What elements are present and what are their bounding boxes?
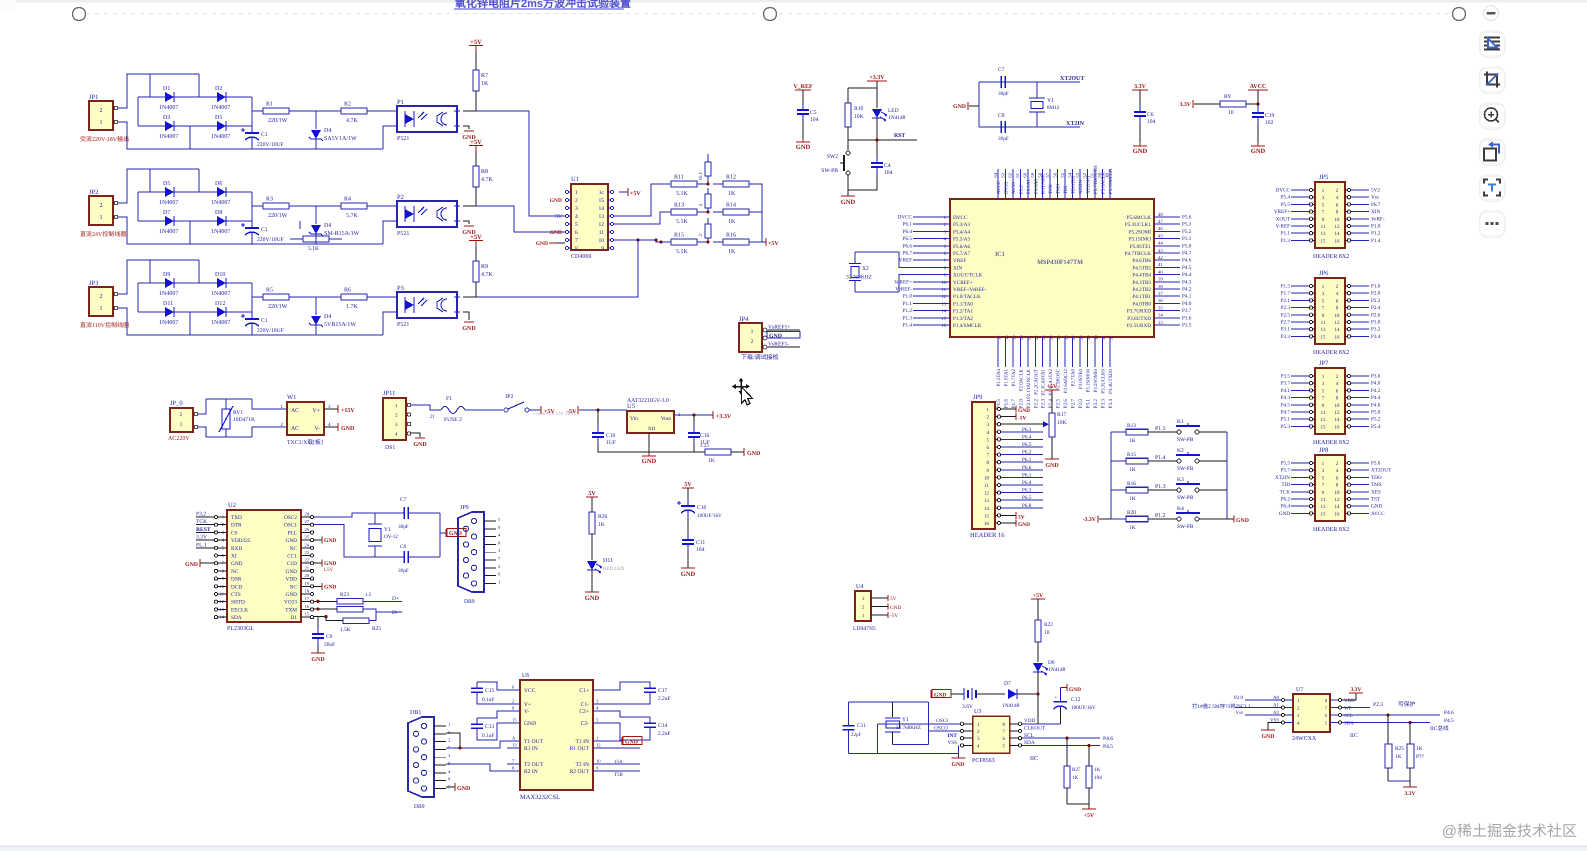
svg-text:P6.6: P6.6 bbox=[1022, 465, 1032, 471]
ground crystal bbox=[439, 513, 441, 557]
resistor R1 bbox=[253, 108, 299, 114]
svg-text:OV-12: OV-12 bbox=[384, 534, 398, 540]
svg-text:16: 16 bbox=[1335, 424, 1341, 430]
svg-text:VSS: VSS bbox=[947, 740, 957, 746]
LED D10 bbox=[876, 88, 878, 108]
svg-text:IC1: IC1 bbox=[995, 251, 1005, 258]
svg-text:24WCXX: 24WCXX bbox=[1292, 736, 1317, 742]
wire DB1 to MAX bbox=[446, 741, 507, 748]
svg-text:P5.4: P5.4 bbox=[1281, 195, 1291, 201]
svg-text:P5.6: P5.6 bbox=[1371, 461, 1381, 467]
svg-text:P6.1: P6.1 bbox=[1022, 457, 1032, 463]
wire A pins bbox=[1245, 699, 1281, 701]
svg-text:D7: D7 bbox=[163, 210, 170, 216]
svg-text:K1: K1 bbox=[1177, 419, 1184, 425]
svg-text:P3.4UTXD0: P3.4UTXD0 bbox=[1108, 368, 1114, 393]
svg-text:36: 36 bbox=[1158, 298, 1163, 304]
svg-text:15: 15 bbox=[1321, 511, 1327, 517]
svg-text:@稀土掘金技术社区: @稀土掘金技术社区 bbox=[1442, 823, 1577, 840]
svg-text:PL.1: PL.1 bbox=[196, 542, 207, 548]
svg-text:CTS: CTS bbox=[231, 592, 241, 598]
svg-text:V-REF: V-REF bbox=[1275, 224, 1290, 230]
wire JP8 pin12 bbox=[1351, 498, 1369, 500]
svg-text:LED: LED bbox=[888, 108, 899, 114]
toolbar annotate button bbox=[1480, 31, 1506, 58]
svg-text:3.3V: 3.3V bbox=[196, 535, 207, 541]
svg-text:GND: GND bbox=[1262, 734, 1275, 740]
svg-text:4.7K: 4.7K bbox=[481, 272, 494, 278]
svg-text:C8: C8 bbox=[400, 544, 406, 550]
svg-text:P2.1: P2.1 bbox=[1026, 399, 1032, 409]
svg-text:P1.6: P1.6 bbox=[1371, 284, 1381, 290]
svg-text:1.5: 1.5 bbox=[365, 592, 372, 598]
resistor R28 pull-up bbox=[1087, 744, 1090, 747]
svg-text:FUSE 2: FUSE 2 bbox=[444, 417, 462, 423]
wire JP7 pin14 bbox=[1351, 418, 1369, 420]
svg-text:5: 5 bbox=[575, 222, 578, 228]
svg-text:14: 14 bbox=[1335, 417, 1341, 423]
svg-text:GND: GND bbox=[625, 740, 638, 746]
wire JP8 pin11 bbox=[1291, 498, 1309, 500]
fuse F1 bbox=[441, 407, 465, 414]
capacitor C9 20uF bbox=[317, 617, 319, 634]
svg-text:VREF: VREF bbox=[953, 258, 966, 264]
svg-text:2: 2 bbox=[751, 339, 754, 345]
svg-text:SW-PB: SW-PB bbox=[1177, 466, 1194, 472]
svg-text:17: 17 bbox=[997, 335, 1002, 340]
svg-text:XT2IN: XT2IN bbox=[1275, 475, 1290, 481]
MCU right pin 43 bbox=[1154, 252, 1166, 254]
svg-text:RST: RST bbox=[894, 133, 905, 139]
svg-text:5.1K: 5.1K bbox=[676, 249, 689, 255]
svg-text:R27: R27 bbox=[1072, 767, 1081, 773]
wire JP8 pin10 bbox=[1351, 491, 1369, 493]
wire JP5 pin9 bbox=[1291, 218, 1309, 220]
resistor R9 bbox=[475, 246, 477, 261]
svg-text:WP: WP bbox=[1344, 706, 1352, 712]
wire key right bus bbox=[1226, 432, 1228, 519]
wire JP6 pin7 bbox=[1291, 307, 1309, 309]
svg-text:V_REF: V_REF bbox=[793, 84, 813, 90]
wire net P1.4 bbox=[1148, 460, 1177, 462]
svg-text:D5: D5 bbox=[163, 181, 170, 187]
wire RST node bbox=[848, 139, 917, 141]
svg-text:R13: R13 bbox=[1127, 423, 1136, 429]
wire JP5 pin10 bbox=[1351, 218, 1369, 220]
svg-text:P5.3: P5.3 bbox=[1182, 222, 1192, 228]
svg-text:19: 19 bbox=[305, 581, 310, 586]
switch JP2 SPST bbox=[504, 408, 508, 412]
capacitor C17 bbox=[606, 682, 650, 690]
svg-text:GND: GND bbox=[324, 584, 336, 590]
svg-text:24: 24 bbox=[305, 542, 310, 547]
svg-text:37: 37 bbox=[1158, 291, 1163, 297]
svg-text:100UF/16V: 100UF/16V bbox=[1071, 705, 1096, 711]
svg-text:11: 11 bbox=[984, 483, 989, 489]
svg-text:5V: 5V bbox=[555, 214, 562, 220]
svg-text:11: 11 bbox=[1321, 224, 1326, 230]
svg-text:1N4007: 1N4007 bbox=[159, 291, 178, 297]
crystal X1 loop bbox=[849, 701, 929, 703]
wire JP6 pin1 bbox=[1291, 285, 1309, 287]
svg-text:XOUT/TCLK: XOUT/TCLK bbox=[953, 273, 983, 279]
MCU left pin 16 bbox=[938, 324, 950, 326]
svg-text:1K: 1K bbox=[481, 81, 489, 87]
svg-text:P5.3: P5.3 bbox=[1281, 424, 1291, 430]
svg-text:JP7: JP7 bbox=[1319, 360, 1329, 367]
svg-text:P1.0/TACLK: P1.0/TACLK bbox=[953, 294, 981, 300]
MCU top pin 59 bbox=[1034, 169, 1036, 199]
svg-text:P4.5: P4.5 bbox=[1182, 265, 1192, 271]
svg-text:GND: GND bbox=[462, 326, 476, 332]
svg-text:P6.5: P6.5 bbox=[903, 236, 913, 242]
svg-text:INT: INT bbox=[947, 733, 957, 739]
svg-text:P5.6: P5.6 bbox=[1182, 215, 1192, 221]
MCU top pin 53 bbox=[1079, 169, 1081, 199]
svg-text:12: 12 bbox=[1335, 320, 1341, 326]
selection dashed line bbox=[86, 13, 1453, 15]
svg-text:14: 14 bbox=[1335, 504, 1341, 510]
MCU left pin 14 bbox=[938, 310, 950, 312]
svg-text:U5: U5 bbox=[627, 403, 635, 410]
diode D8 bbox=[217, 216, 226, 226]
svg-text:V-: V- bbox=[524, 709, 530, 715]
wire JP8 pin5 bbox=[1291, 476, 1309, 478]
svg-text:DCD: DCD bbox=[231, 584, 242, 590]
wire JP1 loop bbox=[118, 74, 199, 108]
svg-text:P4.2TB2: P4.2TB2 bbox=[1132, 287, 1151, 293]
resistor R22 bbox=[1035, 620, 1041, 642]
wire U5 gnd bbox=[648, 433, 650, 452]
svg-text:XIN: XIN bbox=[1371, 209, 1380, 215]
wire JP5 pin2 bbox=[1351, 189, 1369, 191]
svg-text:P1.3: P1.3 bbox=[903, 315, 913, 321]
MCU bottom pin 29 bbox=[1086, 337, 1088, 367]
svg-text:P2.3: P2.3 bbox=[1281, 305, 1291, 311]
wire row2 to U1 bbox=[476, 206, 565, 232]
wire JP9 pin1 gnd bbox=[1001, 408, 1016, 410]
svg-text:P6.5: P6.5 bbox=[1022, 495, 1032, 501]
svg-text:T2 IN: T2 IN bbox=[575, 762, 589, 768]
wire JP6 pin5 bbox=[1291, 299, 1309, 301]
MCU bottom pin 27 bbox=[1072, 337, 1074, 367]
svg-text:22: 22 bbox=[305, 558, 310, 563]
wire SDA long bbox=[1342, 722, 1430, 724]
svg-text:D5: D5 bbox=[215, 115, 222, 121]
svg-text:48: 48 bbox=[1158, 212, 1163, 218]
svg-text:14: 14 bbox=[219, 615, 224, 620]
capacitor C10b electrolytic bbox=[677, 499, 695, 518]
switch K3 bbox=[1177, 488, 1181, 492]
svg-text:58: 58 bbox=[1038, 172, 1043, 177]
ground U5 bbox=[648, 452, 650, 456]
svg-text:12: 12 bbox=[1335, 224, 1341, 230]
svg-text:U2: U2 bbox=[228, 502, 236, 509]
svg-text:P3.3: P3.3 bbox=[1281, 334, 1291, 340]
svg-text:14: 14 bbox=[984, 506, 990, 512]
svg-text:P5.5: P5.5 bbox=[1281, 202, 1291, 208]
svg-text:P1.3: P1.3 bbox=[1281, 238, 1291, 244]
svg-text:12: 12 bbox=[599, 222, 605, 228]
svg-text:P5.5SMCLK: P5.5SMCLK bbox=[1108, 168, 1114, 194]
svg-text:12: 12 bbox=[1335, 497, 1341, 503]
svg-text:60: 60 bbox=[1023, 172, 1028, 177]
MCU right pin 46 bbox=[1154, 230, 1166, 232]
wire JP9 pin5 bbox=[1001, 438, 1043, 440]
wire opto emitter to gnd bbox=[463, 312, 469, 320]
connector JP11 bbox=[383, 398, 406, 440]
svg-text:1: 1 bbox=[100, 120, 103, 126]
svg-text:HEADER 8X2: HEADER 8X2 bbox=[1313, 350, 1349, 356]
svg-text:1N4007: 1N4007 bbox=[159, 320, 178, 326]
svg-text:TXC1/X载[板]: TXC1/X载[板] bbox=[287, 439, 323, 446]
capacitor C row JP1 bbox=[241, 126, 259, 145]
MCU left pin 15 bbox=[938, 317, 950, 319]
svg-text:GND: GND bbox=[286, 538, 298, 544]
svg-text:5V: 5V bbox=[1018, 515, 1025, 521]
svg-text:12: 12 bbox=[219, 599, 224, 604]
wire JP7 pin10 bbox=[1351, 404, 1369, 406]
svg-text:P3.6UTXD: P3.6UTXD bbox=[1127, 316, 1151, 322]
svg-text:P1.4: P1.4 bbox=[1371, 238, 1381, 244]
svg-text:41: 41 bbox=[1158, 262, 1163, 268]
svg-text:DB1: DB1 bbox=[410, 710, 421, 716]
svg-text:OSC1: OSC1 bbox=[284, 523, 297, 529]
wire to zener bbox=[289, 110, 341, 112]
svg-text:+15V: +15V bbox=[341, 408, 355, 414]
wire JP6 pin11 bbox=[1291, 321, 1309, 323]
svg-text:P5.2SOMI: P5.2SOMI bbox=[1129, 229, 1152, 235]
svg-text:OSCO: OSCO bbox=[934, 726, 948, 732]
svg-text:26: 26 bbox=[1064, 335, 1069, 340]
svg-text:GND: GND bbox=[413, 442, 427, 448]
svg-text:VsREF1+: VsREF1+ bbox=[768, 325, 790, 331]
MCU bottom pin 17 bbox=[997, 337, 999, 367]
resistor R14 bbox=[713, 209, 759, 215]
ground DB1 bbox=[446, 786, 455, 788]
svg-text:C19: C19 bbox=[1265, 113, 1275, 119]
svg-text:VDD325: VDD325 bbox=[231, 538, 251, 544]
svg-text:P3.7URXD: P3.7URXD bbox=[1127, 309, 1151, 315]
svg-text:1c: 1c bbox=[599, 190, 605, 196]
svg-text:P6.1: P6.1 bbox=[1022, 472, 1032, 478]
svg-text:5V: 5V bbox=[588, 491, 596, 497]
capacitor C8 bbox=[979, 126, 1080, 128]
wire R12-R14-R16 right bus bbox=[759, 184, 762, 242]
svg-text:P5.1SIMO: P5.1SIMO bbox=[1129, 237, 1152, 243]
svg-text:1K: 1K bbox=[1395, 754, 1402, 760]
svg-text:P4.3TB3: P4.3TB3 bbox=[1132, 280, 1151, 286]
ground opto row bbox=[464, 225, 474, 227]
svg-text:D9: D9 bbox=[163, 272, 170, 278]
svg-text:2.2uF: 2.2uF bbox=[658, 731, 670, 737]
svg-text:20: 20 bbox=[1019, 335, 1024, 340]
svg-text:C1: C1 bbox=[261, 132, 268, 138]
wire JP5 pin15 bbox=[1291, 239, 1309, 241]
wire key K2 out bbox=[1199, 460, 1227, 462]
MCU top pin 56 bbox=[1057, 169, 1059, 199]
svg-text:13: 13 bbox=[1321, 504, 1327, 510]
svg-text:1N4007: 1N4007 bbox=[211, 320, 230, 326]
wire JP7 pin16 bbox=[1351, 425, 1369, 427]
wire JP11 pin1 to fuse bbox=[411, 405, 441, 410]
IC IC1 MSP430F147 bbox=[950, 199, 1154, 337]
svg-text:ND: ND bbox=[648, 426, 656, 432]
svg-text:8: 8 bbox=[575, 246, 578, 252]
svg-text:15: 15 bbox=[512, 718, 517, 723]
svg-text:220V/10UF: 220V/10UF bbox=[257, 328, 284, 334]
MCU right pin 41 bbox=[1154, 266, 1166, 268]
svg-text:59: 59 bbox=[1030, 172, 1035, 177]
wire JP6 pin6 bbox=[1351, 299, 1369, 301]
svg-text:P4.2: P4.2 bbox=[1371, 388, 1381, 394]
svg-text:XT2IN: XT2IN bbox=[1066, 121, 1085, 127]
svg-text:PCF8563: PCF8563 bbox=[972, 758, 995, 764]
svg-text:P1.6TA1: P1.6TA1 bbox=[1003, 368, 1009, 386]
svg-text:P2.7: P2.7 bbox=[1071, 399, 1077, 409]
MCU left pin 5 bbox=[938, 245, 950, 247]
svg-text:P3.3: P3.3 bbox=[1100, 399, 1106, 409]
svg-text:3.3V: 3.3V bbox=[1180, 102, 1192, 108]
zener diode D4 bbox=[309, 316, 323, 327]
diode D10 bbox=[217, 278, 226, 288]
svg-text:P5.7: P5.7 bbox=[1281, 468, 1291, 474]
IC U1 CD4069 bbox=[571, 184, 608, 250]
svg-text:C17: C17 bbox=[658, 688, 668, 694]
svg-text:64: 64 bbox=[993, 172, 998, 177]
diode D7 bbox=[1008, 689, 1017, 699]
toolbar rotate button bbox=[1480, 139, 1506, 166]
svg-text:P2.0: P2.0 bbox=[1371, 291, 1381, 297]
svg-text:P2: P2 bbox=[397, 194, 404, 201]
wire JP7 pin8 bbox=[1351, 397, 1369, 399]
svg-text:63: 63 bbox=[1000, 172, 1005, 177]
svg-text:REST: REST bbox=[196, 527, 211, 533]
svg-text:R17: R17 bbox=[1057, 412, 1067, 418]
wire bridge rails bbox=[149, 74, 151, 97]
ground R17 bbox=[1045, 458, 1059, 460]
svg-text:10: 10 bbox=[1044, 630, 1050, 636]
svg-text:220V/10UF: 220V/10UF bbox=[257, 142, 284, 148]
svg-text:R1 OUT: R1 OUT bbox=[570, 746, 590, 752]
svg-text:P1.2: P1.2 bbox=[903, 308, 913, 314]
wire JP5 pin11 bbox=[1291, 225, 1309, 227]
svg-text:31: 31 bbox=[1101, 335, 1106, 340]
svg-text:VREF: VREF bbox=[899, 258, 912, 264]
svg-text:14: 14 bbox=[1335, 231, 1341, 237]
svg-text:C1-: C1- bbox=[581, 702, 590, 708]
wire key K1 out bbox=[1199, 431, 1227, 433]
wire JP8 pin7 bbox=[1291, 484, 1309, 486]
svg-text:SW-PB: SW-PB bbox=[1177, 437, 1194, 443]
svg-text:12: 12 bbox=[984, 491, 990, 497]
svg-text:P2.7: P2.7 bbox=[1281, 320, 1291, 326]
svg-text:16.1: 16.1 bbox=[698, 171, 704, 180]
MCU bottom pin 30 bbox=[1094, 337, 1096, 367]
wire JP9 pin6 bbox=[1001, 446, 1043, 448]
svg-text:P1.1: P1.1 bbox=[1281, 231, 1291, 237]
resistor R13 bbox=[661, 209, 707, 215]
MCU top pin 51 bbox=[1094, 169, 1096, 199]
svg-text:43: 43 bbox=[1158, 248, 1163, 254]
wire R1OUT stub bbox=[606, 747, 640, 749]
svg-text:D12: D12 bbox=[215, 301, 225, 307]
svg-text:30pF: 30pF bbox=[398, 524, 409, 530]
svg-text:Y1: Y1 bbox=[1047, 98, 1054, 104]
svg-text:P2.4CA1TA2: P2.4CA1TA2 bbox=[1048, 368, 1054, 395]
svg-text:12: 12 bbox=[941, 294, 946, 300]
svg-text:R1 IN: R1 IN bbox=[524, 746, 538, 752]
connector JP8 HEADER 8X2 bbox=[1315, 455, 1345, 521]
svg-text:VsREF1-: VsREF1- bbox=[768, 342, 789, 348]
net label VsREF+ bbox=[767, 329, 800, 331]
svg-text:GND: GND bbox=[536, 241, 548, 247]
ground cap column bbox=[681, 567, 695, 569]
svg-text:D8: D8 bbox=[215, 210, 222, 216]
svg-text:P6.1: P6.1 bbox=[903, 222, 913, 228]
resistor R6 bbox=[331, 294, 377, 300]
svg-text:C7: C7 bbox=[998, 67, 1005, 73]
svg-text:220/1W: 220/1W bbox=[268, 304, 288, 310]
svg-text:P6.0A0: P6.0A0 bbox=[1033, 179, 1039, 194]
svg-text:P5.7TBOUTH: P5.7TBOUTH bbox=[1093, 165, 1099, 194]
svg-text:16: 16 bbox=[305, 604, 310, 609]
svg-text:2: 2 bbox=[100, 294, 103, 300]
wire to opto bbox=[377, 110, 391, 112]
svg-text:3.6V: 3.6V bbox=[962, 704, 973, 710]
capacitor C14 bbox=[606, 711, 650, 723]
wire JP6 pin8 bbox=[1351, 307, 1369, 309]
switch K4 bbox=[1177, 517, 1181, 521]
svg-text:C14: C14 bbox=[658, 723, 668, 729]
svg-text:1N4007: 1N4007 bbox=[159, 105, 178, 111]
svg-text:P1.6: P1.6 bbox=[1003, 399, 1009, 409]
svg-text:10: 10 bbox=[1335, 403, 1341, 409]
svg-text:P5.1: P5.1 bbox=[1182, 236, 1192, 242]
svg-text:P??: P?? bbox=[1416, 754, 1424, 760]
svg-text:P1: P1 bbox=[397, 99, 404, 106]
MCU left pin 13 bbox=[938, 302, 950, 304]
ground U3 bbox=[958, 753, 960, 758]
svg-text:D2: D2 bbox=[215, 86, 222, 92]
svg-text:8M12: 8M12 bbox=[1047, 105, 1060, 111]
svg-text:P3.6: P3.6 bbox=[1182, 315, 1192, 321]
svg-text:P3.1: P3.1 bbox=[1281, 327, 1291, 333]
svg-text:21: 21 bbox=[1026, 335, 1031, 340]
resistor R5a bbox=[299, 221, 301, 229]
svg-text:JP6: JP6 bbox=[1319, 270, 1329, 277]
svg-text:PLL: PLL bbox=[288, 530, 297, 536]
wire JP9 pin13 bbox=[1001, 499, 1043, 501]
resistor R20 bbox=[1111, 518, 1126, 520]
resistor R20 vertical bbox=[705, 224, 711, 238]
svg-text:R10: R10 bbox=[854, 106, 864, 112]
capacitor C16 bbox=[693, 415, 695, 433]
svg-text:P4.6: P4.6 bbox=[1444, 710, 1454, 716]
wire JP5 pin12 bbox=[1351, 225, 1369, 227]
svg-text:P2.1: P2.1 bbox=[1281, 298, 1291, 304]
svg-text:5V: 5V bbox=[890, 596, 897, 602]
svg-text:P4.1: P4.1 bbox=[1182, 294, 1192, 300]
svg-text:JP3: JP3 bbox=[89, 280, 98, 287]
svg-text:4.7K: 4.7K bbox=[346, 118, 359, 124]
svg-text:P5.2: P5.2 bbox=[1182, 229, 1192, 235]
svg-text:10: 10 bbox=[1335, 490, 1341, 496]
capacitor C11c bbox=[843, 725, 855, 727]
svg-text:R7: R7 bbox=[481, 73, 488, 79]
svg-text:13: 13 bbox=[1321, 231, 1327, 237]
svg-text:11: 11 bbox=[941, 287, 946, 293]
